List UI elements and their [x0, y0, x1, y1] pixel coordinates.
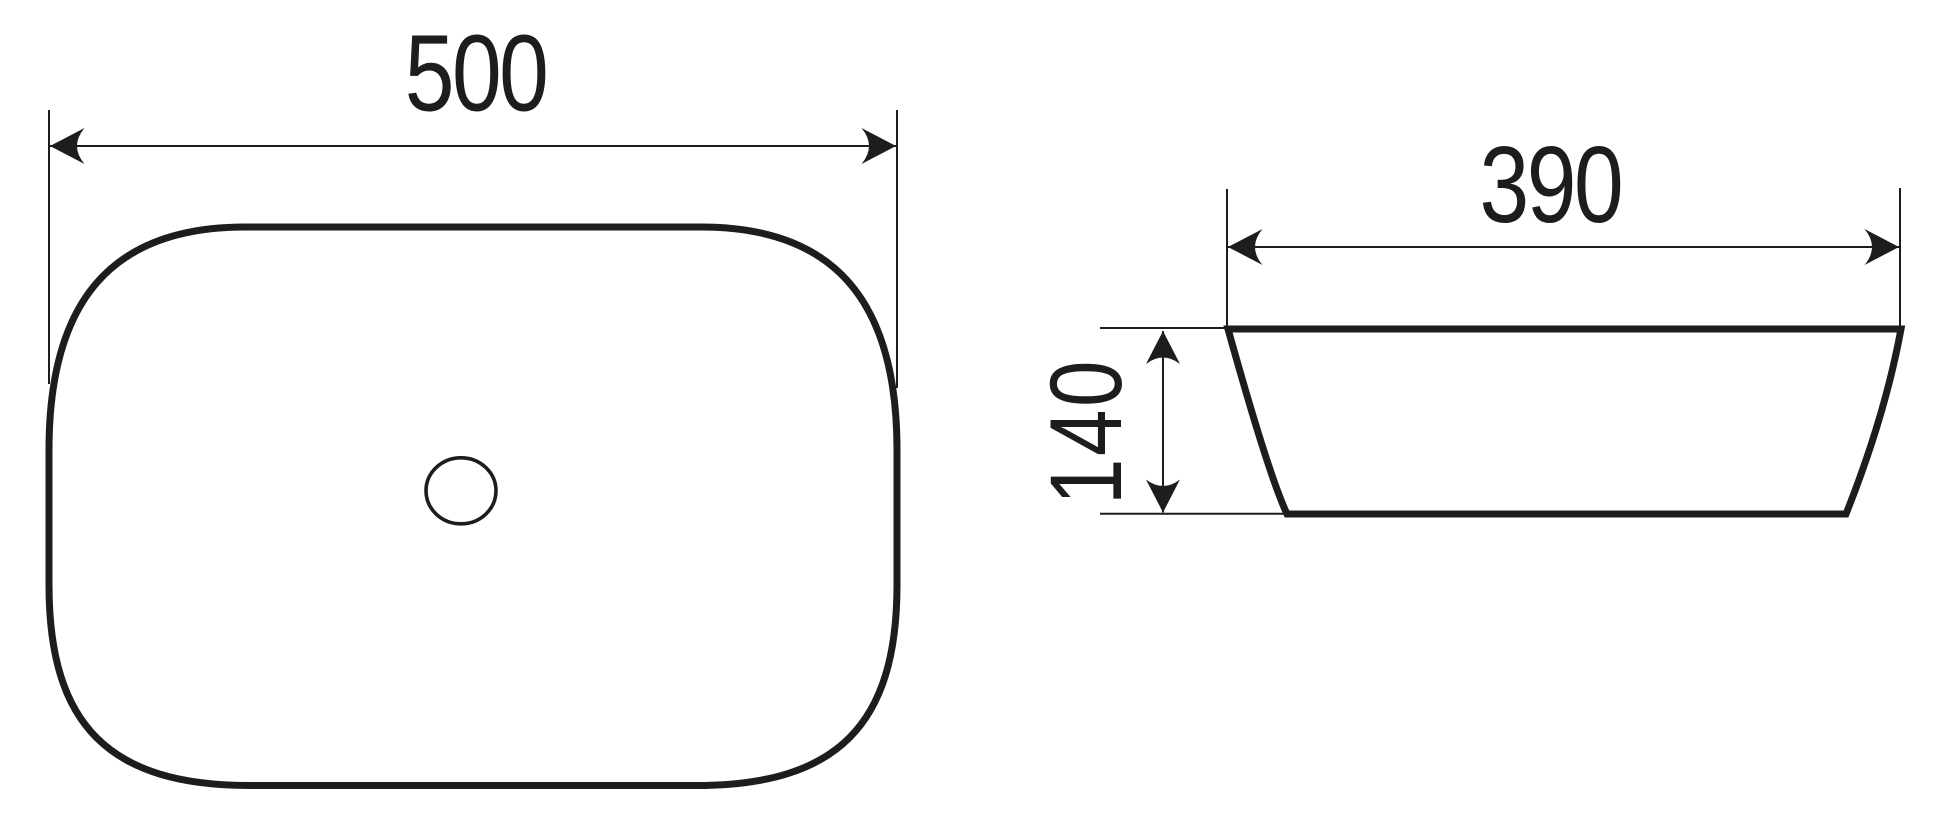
- extension line top (140 dim): [1100, 327, 1232, 329]
- drain hole circle: [426, 458, 496, 524]
- svg-text:390: 390: [1480, 125, 1622, 246]
- extension line right (390 dim): [1899, 188, 1901, 327]
- dimension line 390: [1228, 246, 1899, 248]
- arrowhead top of 140 dim: [1146, 331, 1180, 364]
- extension line left (500 dim): [48, 110, 50, 384]
- extension line right (500 dim): [896, 110, 898, 388]
- basin side outline: [1228, 329, 1901, 514]
- arrowhead left of 390 dim: [1228, 229, 1263, 265]
- svg-text:140: 140: [1029, 358, 1143, 505]
- dimension line 500: [50, 145, 896, 147]
- arrowhead right of 390 dim: [1865, 229, 1900, 265]
- extension line bottom (140 dim): [1100, 513, 1290, 515]
- arrowhead left of 500 dim: [50, 128, 85, 164]
- svg-text:500: 500: [405, 13, 547, 134]
- extension line left (390 dim): [1226, 189, 1228, 330]
- arrowhead bottom of 140 dim: [1146, 480, 1180, 513]
- arrowhead right of 500 dim: [862, 128, 897, 164]
- dimension line 140: [1162, 331, 1164, 513]
- basin outline (rounded rectangle): [49, 227, 897, 786]
